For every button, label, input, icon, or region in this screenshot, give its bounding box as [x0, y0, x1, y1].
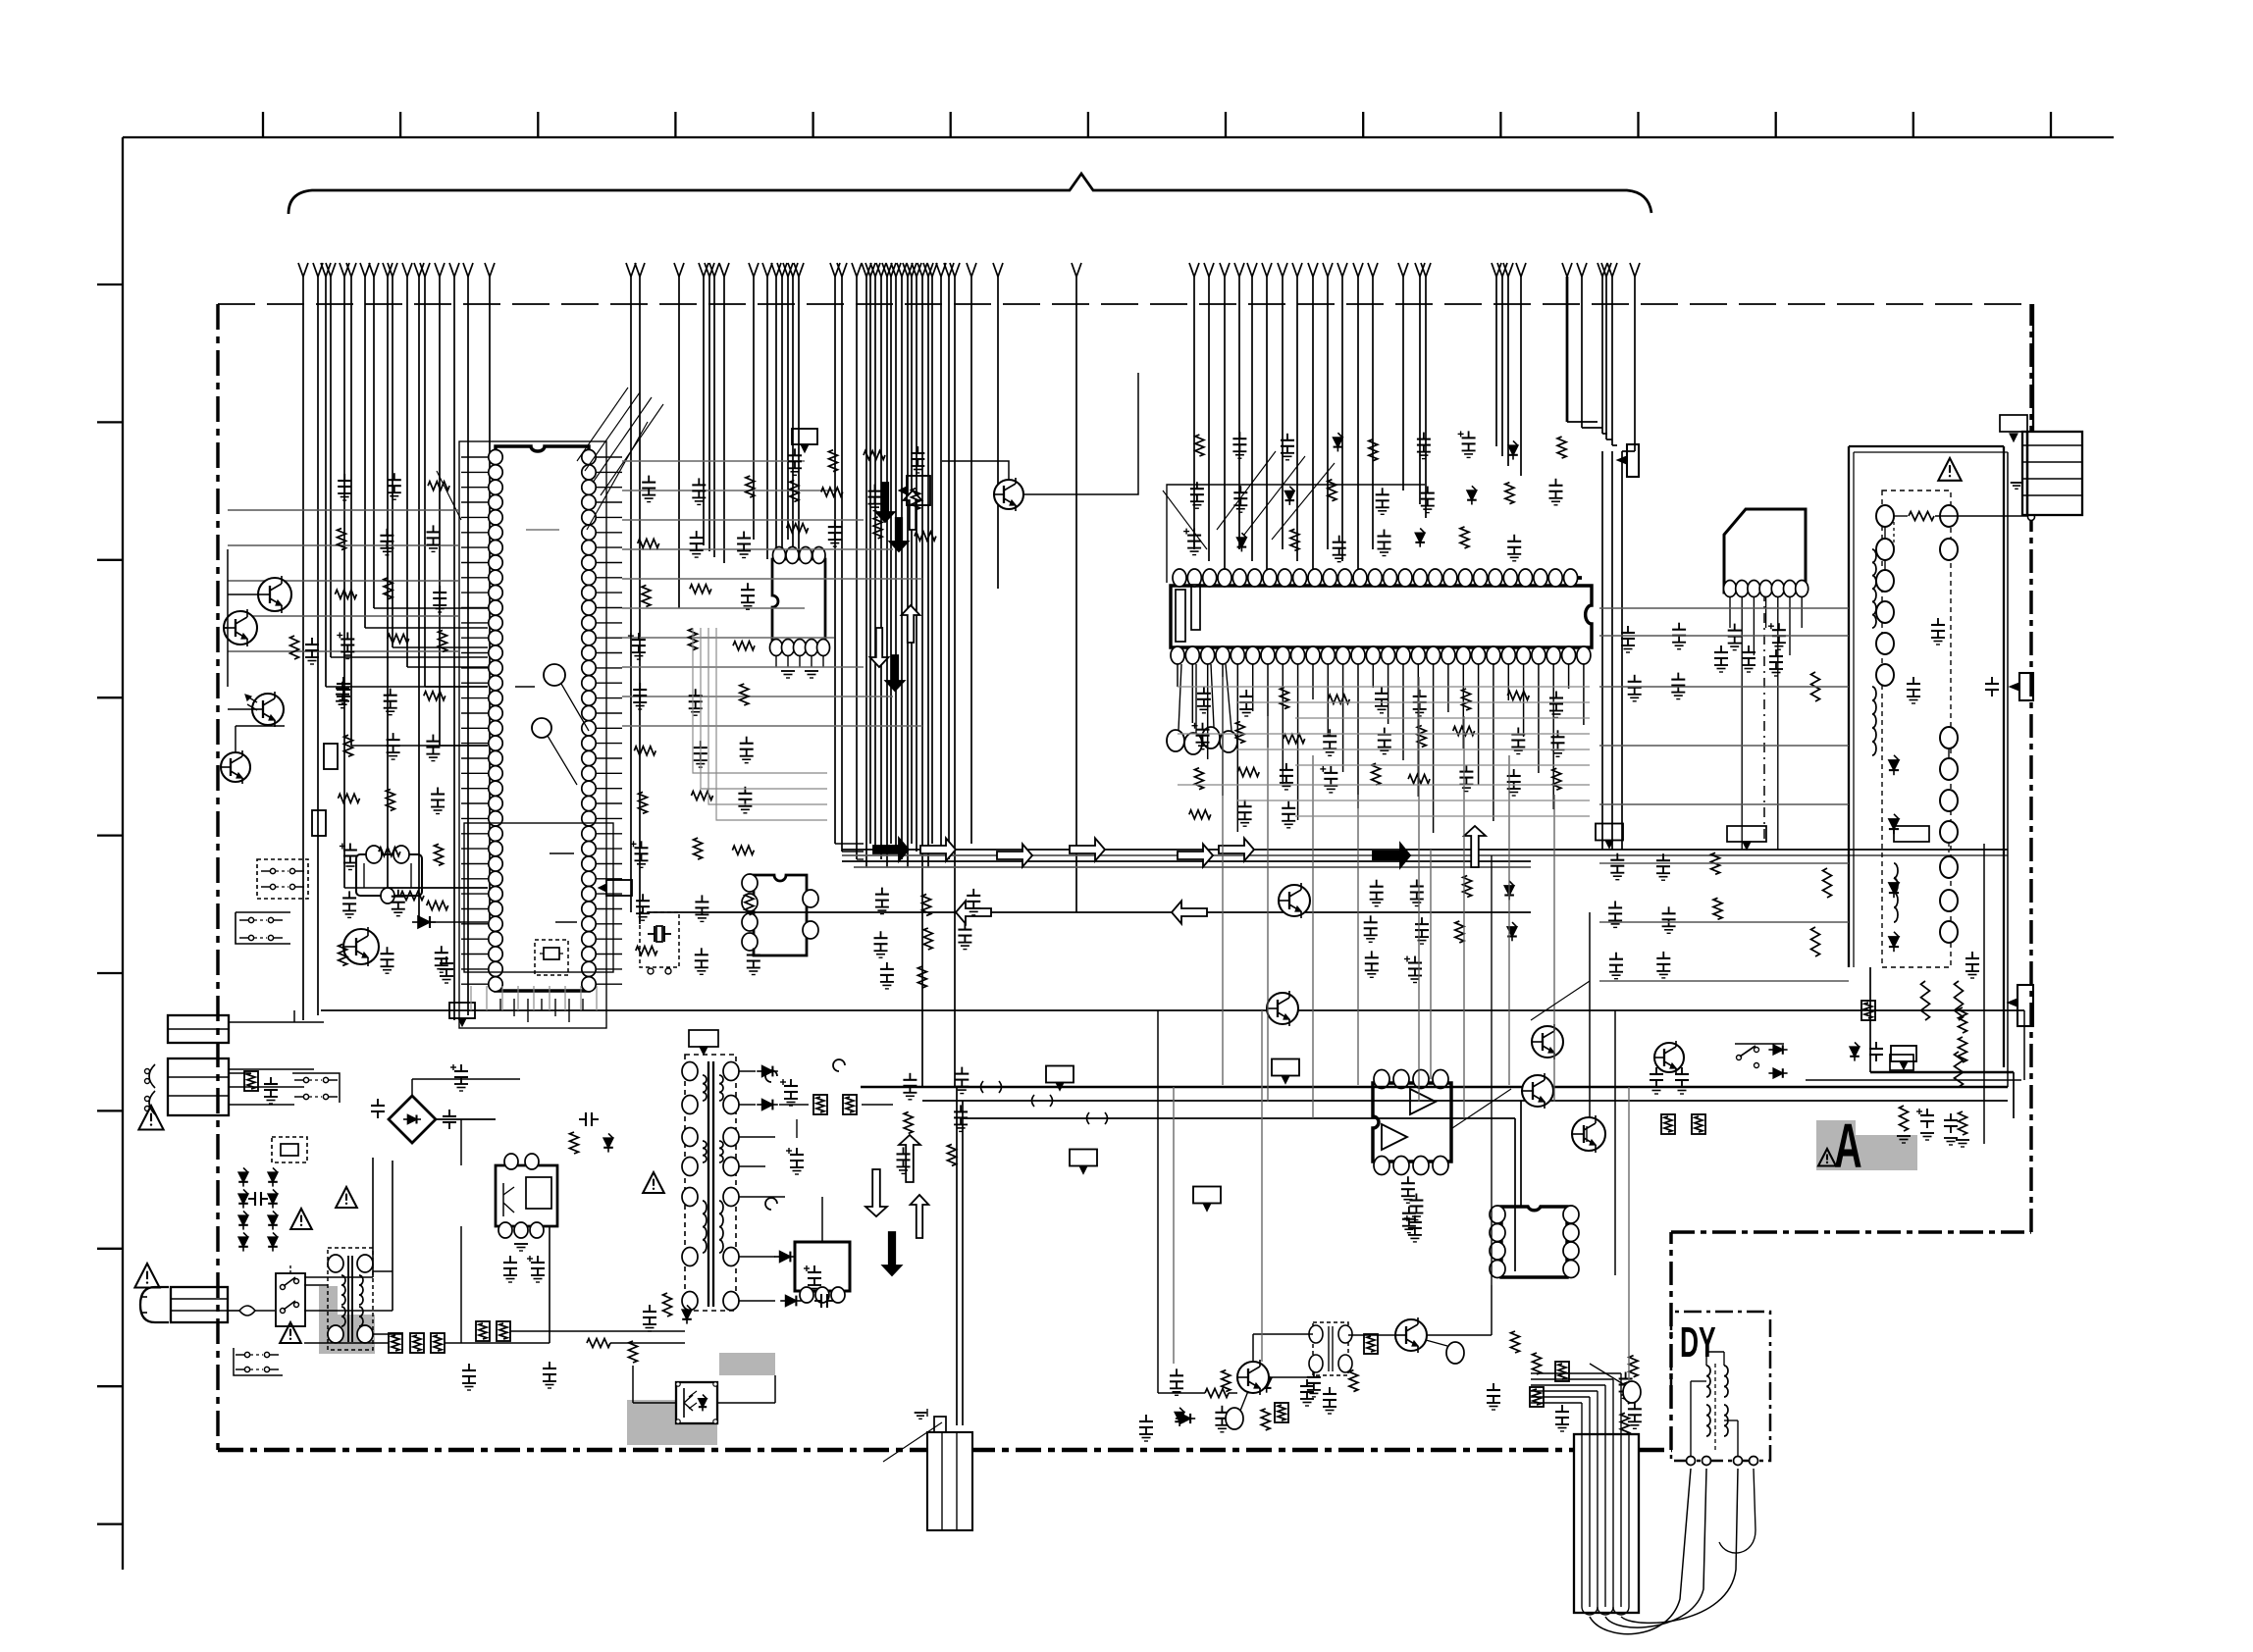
transistor Q504b: [994, 480, 1023, 509]
cluster above IC001: [794, 448, 796, 455]
test point circle on U001: [544, 664, 565, 686]
gray highlight behind A marker: [1816, 1120, 1856, 1136]
bridge rectifier D601: [389, 1096, 436, 1143]
IC IC206 top pin row: [1173, 576, 1582, 580]
leader lines above U001: [577, 387, 628, 461]
horizontal gray collectors below IC206: [1178, 686, 1590, 688]
switch S001 dashed box: [257, 859, 308, 899]
wires from U001 right pins to center rails: [622, 460, 805, 462]
IC IC001 ground stubs: [775, 655, 777, 667]
deflection wires: [1269, 1376, 1313, 1378]
wire to regulator: [821, 1197, 823, 1242]
long horizontal wire pair to right side: [861, 1086, 2008, 1089]
TL431 area: [663, 1293, 672, 1316]
top connector to CRT: [2022, 432, 2082, 515]
CRT driver dashed box: [1882, 490, 1951, 967]
transistor Q551: [1532, 1026, 1563, 1058]
cluster below IC206: [1203, 687, 1205, 694]
wires out of U001 bottom: [499, 999, 501, 1010]
wires from connectors: [229, 1021, 324, 1023]
IC U001 outer frame box: [459, 441, 606, 1028]
sub IC frame under U001: [464, 823, 613, 972]
IC IC650 regulator STR: [496, 1165, 557, 1226]
diode deflection: [1180, 1414, 1190, 1423]
pulse transformer T801 dashed: [1313, 1322, 1348, 1375]
optocoupler PC601: [676, 1382, 717, 1423]
oval near flyback: [1623, 1381, 1641, 1403]
connector label box: [2000, 415, 2027, 432]
secondary diode D653: [762, 1100, 773, 1110]
fusible resistors row2: [476, 1321, 490, 1341]
U001 pin stubs right: [597, 456, 622, 458]
wires from cluster C bend right into bus: [835, 843, 864, 845]
deflection verticals: [1157, 1010, 1159, 1393]
CRT diodes: [1889, 760, 1899, 770]
primary wires: [304, 1342, 389, 1344]
caps right-mid: [1655, 1067, 1657, 1074]
warning triangle AC: [138, 1106, 163, 1130]
cluster A staircase bends into U001 pins: [326, 686, 488, 688]
staircase from U001 area to center: [693, 628, 827, 773]
IR receiver photo-transistor: [252, 694, 284, 725]
cluster under IC601: [1407, 1176, 1409, 1183]
ground at connector: [2011, 482, 2023, 484]
decoupling cluster right of U001: [648, 476, 650, 483]
resistor near input: [290, 636, 299, 659]
CRT label boxes: [1894, 826, 1929, 842]
IC IC051 8-pin: [754, 875, 807, 955]
IC U001 right pin row: [582, 449, 596, 464]
T601 core: [707, 1061, 709, 1307]
switch S501: [1735, 1043, 1784, 1045]
board outline bottom-right step dash-dot: [1669, 1232, 1672, 1450]
gray highlight behind optocoupler: [627, 1400, 717, 1445]
IC IC602 8-pin: [1501, 1207, 1567, 1277]
left long wires from U001 to edge: [228, 509, 459, 511]
test point circle 2 on U001: [532, 718, 551, 738]
IC U001 left pin row: [489, 449, 502, 464]
CRT socket pins column 2: [1940, 505, 1958, 527]
IC501 pin drop wires: [1729, 597, 1731, 628]
bus wire entering from top, node single: [993, 263, 998, 277]
U001 pin stubs left: [461, 456, 488, 458]
CRT socket pins column 1: [1876, 505, 1894, 527]
relay RY001: [356, 854, 422, 896]
cluster mid band C: [1616, 853, 1618, 860]
AC plug: [140, 1287, 169, 1322]
box resistor sec1: [813, 1095, 827, 1114]
cap near fuse resistors: [468, 1364, 470, 1370]
bus wires entering from top, cluster C: [830, 263, 835, 277]
board outline right edge dash-dot: [2029, 304, 2032, 1232]
CRT misc caps: [1912, 677, 1914, 684]
jack symbols: [149, 1064, 155, 1088]
line filter transformer T602: [328, 1248, 373, 1350]
CRT board outline rails: [1848, 446, 1850, 967]
decoupling cluster left of U001: [343, 474, 345, 481]
top brace: [288, 174, 1651, 214]
svg-text:DY: DY: [1680, 1317, 1716, 1367]
op-amp triangles in IC601: [1410, 1089, 1436, 1114]
posistor dashed box: [272, 1137, 307, 1162]
gray highlight behind mains transformer: [319, 1286, 338, 1315]
CRT resistors lower: [1921, 981, 1930, 1020]
warning triangle degauss: [290, 1209, 312, 1229]
transistor Q004: [224, 611, 257, 645]
cap-ground pair B: [342, 677, 344, 684]
secondary diode D655: [780, 1252, 791, 1263]
box resistor at T801: [1364, 1334, 1378, 1354]
CRT coil windings: [1872, 549, 1876, 628]
resistor to opto: [587, 1339, 610, 1348]
bus wires entering from top, cluster H to power IC: [1562, 263, 1567, 277]
DY yoke windings: [1714, 1364, 1716, 1450]
contact pair below: [248, 917, 253, 922]
wires power IC to CRT board: [1599, 607, 1849, 609]
T601 label box: [689, 1030, 718, 1047]
resistor between sockets: [1909, 512, 1934, 521]
T601 secondary pins: [723, 1062, 739, 1081]
sheet border left tick marks: [97, 284, 123, 285]
cluster right-mid area: [1627, 626, 1629, 633]
components left of flyback: [1530, 1387, 1544, 1407]
vertical arrows column near x=900: [876, 483, 895, 522]
fuse F601: [228, 1310, 239, 1312]
snubber cluster: [579, 1118, 586, 1120]
cluster above IC206: [1195, 435, 1204, 456]
warning triangle switch: [280, 1322, 301, 1343]
vertical rails to power IC and CRT board: [1601, 451, 1603, 850]
MOSFET Q553: [1572, 1117, 1605, 1151]
heavy line above connector: [2032, 304, 2034, 432]
signal arrows right: [873, 838, 909, 860]
pad at Q802: [1446, 1342, 1464, 1364]
degauss cap: [248, 1198, 255, 1200]
transistor Q552: [1522, 1075, 1553, 1107]
IC IC206 hanging pads: [1167, 730, 1184, 751]
sheet border left rule: [122, 137, 124, 1570]
verticals joining U001 to bottom bus: [470, 986, 472, 1010]
DY pin terminals: [1687, 1457, 1696, 1466]
tabs on right border: [2019, 673, 2033, 700]
IC IC001 8-pin: [772, 559, 825, 644]
sheet border top rule: [123, 136, 2114, 138]
vertical pair right of IC601: [1514, 1118, 1516, 1271]
IC IC601 op-amp pair: [1373, 1083, 1451, 1162]
small rect tabs left border: [324, 744, 338, 769]
main cap C605: [460, 1064, 462, 1071]
diagonal leaders IC206: [1217, 451, 1276, 530]
connector CN102: [168, 1058, 229, 1115]
cap C017: [445, 956, 447, 963]
long horizontal wire upper: [321, 1009, 2024, 1011]
label box right-mid: [1727, 826, 1766, 842]
transistor Q303: [1267, 993, 1298, 1024]
flyback top leads: [1581, 1403, 1583, 1434]
cap at border tab: [1991, 677, 1993, 684]
terminal on border: [2028, 514, 2035, 521]
line filter components: [244, 1071, 258, 1091]
right side vertical drop from bus: [2013, 1072, 2015, 1118]
wires inside CRT board: [1884, 527, 1886, 539]
resistor h-drive: [1205, 1389, 1229, 1398]
long verticals from IC206 zone to lower bus: [1222, 677, 1224, 1085]
C-shaped jumpers: [765, 1070, 777, 1082]
T601 primary pins: [682, 1062, 698, 1081]
warning triangle CRT: [1938, 458, 1961, 481]
transistor Q801: [1237, 1362, 1269, 1393]
bus wires entering from top, cluster C0: [749, 263, 754, 277]
warning triangle posistor: [336, 1187, 357, 1208]
signal arrows left: [956, 901, 991, 923]
bus wires entering from top, cluster E to IC top: [1189, 263, 1194, 277]
cluster vertical drive: [1629, 1356, 1638, 1377]
cluster mid band A: [1376, 880, 1378, 887]
svg-text:A: A: [1834, 1112, 1862, 1182]
resistor chain right: [1811, 672, 1820, 701]
flyback transformer T503: [1574, 1434, 1639, 1613]
transistor Q302: [1279, 885, 1310, 916]
sheet border top tick marks: [262, 112, 264, 137]
transistor Q802: [1395, 1319, 1427, 1351]
warning triangle fuse: [134, 1264, 159, 1288]
flyback to DY leads: [1590, 1469, 1691, 1634]
contact pairs under switch: [244, 1352, 249, 1357]
cluster right of T601: [909, 1073, 911, 1080]
ceramic resonator dashed box: [535, 940, 568, 975]
diode D001: [418, 916, 430, 928]
return bus line: [648, 911, 1531, 913]
tab marker rect near rails: [1627, 444, 1639, 477]
IC U001 internal marks: [526, 529, 559, 531]
resistor R020: [400, 892, 424, 901]
IC IC652 regulator: [795, 1242, 850, 1291]
power switch S601: [276, 1273, 305, 1326]
misc diagonal leaders mid: [1531, 981, 1590, 1020]
flyback bottom hooks: [1582, 1607, 1598, 1615]
transistor Q001: [221, 752, 250, 782]
warning triangle at A marker: [1818, 1149, 1836, 1166]
IC IC206 bottom pin row: [1173, 653, 1531, 657]
dash-dot separator below power IC: [1763, 592, 1765, 844]
power IC IC501 with heatsink tab: [1724, 509, 1806, 593]
AC inlet connector: [171, 1287, 228, 1322]
bridge caps: [377, 1099, 379, 1106]
board outline bottom edge dash-dot: [218, 1448, 932, 1453]
crystal X001 dashed box: [640, 912, 679, 967]
vertical arrows column lower: [865, 1169, 887, 1216]
IC IC206 body: [1171, 586, 1592, 647]
cluster mid band B: [881, 888, 883, 895]
diodes at S501: [1773, 1045, 1783, 1055]
pad at Q801: [1226, 1408, 1243, 1429]
secondary cap: [790, 1079, 792, 1086]
opto wires: [717, 1402, 775, 1404]
cap pair near power IC: [1720, 645, 1722, 652]
secondary cap3: [813, 1265, 815, 1272]
transistor Q002: [343, 929, 379, 964]
bus wires entering from top, cluster A: [298, 263, 303, 277]
vertical pair to bottom connector: [956, 1087, 958, 1425]
cap-ground pair A: [311, 638, 313, 645]
bus wires entering from top, cluster F: [1398, 263, 1403, 277]
transformer T601 dashed outline: [685, 1055, 736, 1311]
bus wires entering from top, cluster B: [626, 263, 631, 277]
horizontal signal bus lines: [842, 849, 2008, 851]
board outline left edge dash-dot: [216, 304, 219, 1450]
caps at Q801: [1306, 1379, 1308, 1386]
IC206 bottom pin wires: [1177, 664, 1179, 687]
caps under STR: [509, 1256, 511, 1263]
wire from Q504b: [1023, 373, 1138, 494]
secondary wires: [739, 1070, 756, 1072]
board outline dashed top edge: [218, 303, 2031, 305]
degauss coil diode chains: [238, 1172, 248, 1182]
secondary diode D656: [786, 1296, 797, 1307]
label boxes scattered: [606, 880, 632, 896]
wires AC to bridge: [228, 1072, 250, 1074]
connector CN101: [168, 1015, 229, 1043]
CRT board lower step: [1869, 967, 1871, 1072]
bus wires entering from top, cluster G: [1492, 263, 1496, 277]
secondary diode D652: [762, 1066, 773, 1077]
wire label box on bus: [449, 1003, 475, 1018]
IC IC206 pin1 marks: [1176, 590, 1185, 642]
cluster deflection area: [1176, 1368, 1178, 1375]
bottom connector CN601: [927, 1432, 972, 1530]
box resistors right-mid: [1661, 1114, 1675, 1134]
up arrow mid: [1464, 826, 1486, 867]
input wires top-left: [227, 549, 229, 687]
transistor Q003: [258, 578, 291, 611]
components below CRT board: [1861, 1001, 1875, 1020]
gray highlight capacitor strip: [719, 1353, 775, 1375]
frame above IC206: [1167, 485, 1425, 583]
fusible resistors row: [389, 1333, 402, 1353]
boxres at Q801: [1275, 1403, 1288, 1422]
T601 windings: [703, 1075, 707, 1101]
warning triangle transformer: [643, 1172, 664, 1193]
DY yoke dash-dot box: [1671, 1312, 1770, 1461]
transistor Q504: [1654, 1043, 1684, 1072]
secondary cap2: [796, 1148, 798, 1155]
HV rail wires: [436, 1118, 496, 1120]
IC U001 body: [496, 446, 589, 991]
